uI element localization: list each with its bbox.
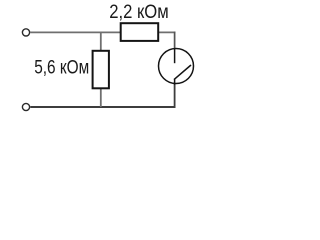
resistor R2 (2,2 кОм, horizontal): [121, 23, 159, 41]
wire: R1 bottom to bottom wire: [100, 88, 102, 107]
device P1: bottom lead inside circle: [174, 79, 176, 85]
wire: device P1 bottom lead down to bottom wire: [174, 83, 176, 108]
wire: top-right corner down to device P1: [174, 32, 176, 49]
svg-text:2,2 кОм: 2,2 кОм: [109, 1, 169, 23]
terminal: bottom-left input: [22, 103, 29, 110]
terminal: top-left input: [22, 29, 29, 36]
device P1: top lead inside circle: [174, 49, 176, 64]
svg-text:5,6 кОм: 5,6 кОм: [34, 57, 89, 79]
resistor R1 (5,6 кОм, vertical): [93, 51, 109, 89]
device P1: circle body: [159, 49, 194, 84]
device P1: diagonal blade: [174, 65, 191, 80]
wire: top-left terminal to R2: [30, 31, 120, 33]
wire: R2 to top-right corner: [158, 31, 175, 33]
wire: junction on top wire down to R1: [100, 32, 102, 50]
wire: bottom wire from device to bottom-left terminal: [30, 106, 175, 108]
